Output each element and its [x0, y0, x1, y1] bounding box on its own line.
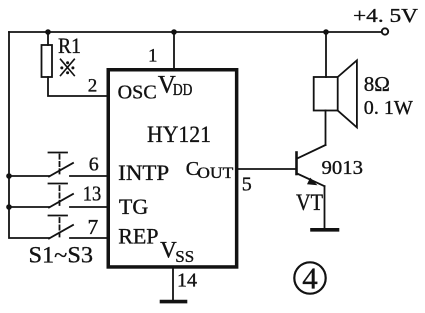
svg-text:SS: SS [175, 247, 194, 266]
svg-text:R1: R1 [58, 33, 81, 58]
svg-text:OSC: OSC [118, 82, 157, 104]
svg-text:S1~S3: S1~S3 [29, 242, 94, 267]
svg-text:1: 1 [148, 46, 158, 67]
svg-text:OUT: OUT [197, 165, 233, 182]
svg-text:6: 6 [89, 154, 99, 176]
svg-text:14: 14 [177, 270, 197, 292]
svg-text:8Ω: 8Ω [364, 72, 390, 96]
svg-text:9013: 9013 [322, 157, 364, 179]
svg-text:5: 5 [242, 174, 252, 196]
svg-text:REP: REP [118, 223, 158, 248]
svg-text:INTP: INTP [118, 160, 169, 185]
svg-text:DD: DD [173, 80, 193, 99]
svg-text:2: 2 [88, 76, 98, 97]
svg-text:HY121: HY121 [147, 122, 211, 147]
svg-text:0. 1W: 0. 1W [364, 97, 413, 119]
svg-text:TG: TG [119, 194, 148, 219]
svg-text:4: 4 [302, 261, 318, 296]
svg-text:13: 13 [83, 182, 102, 206]
svg-text:7: 7 [88, 215, 99, 239]
svg-text:+4. 5V: +4. 5V [353, 5, 419, 27]
svg-text:VT: VT [296, 190, 323, 215]
